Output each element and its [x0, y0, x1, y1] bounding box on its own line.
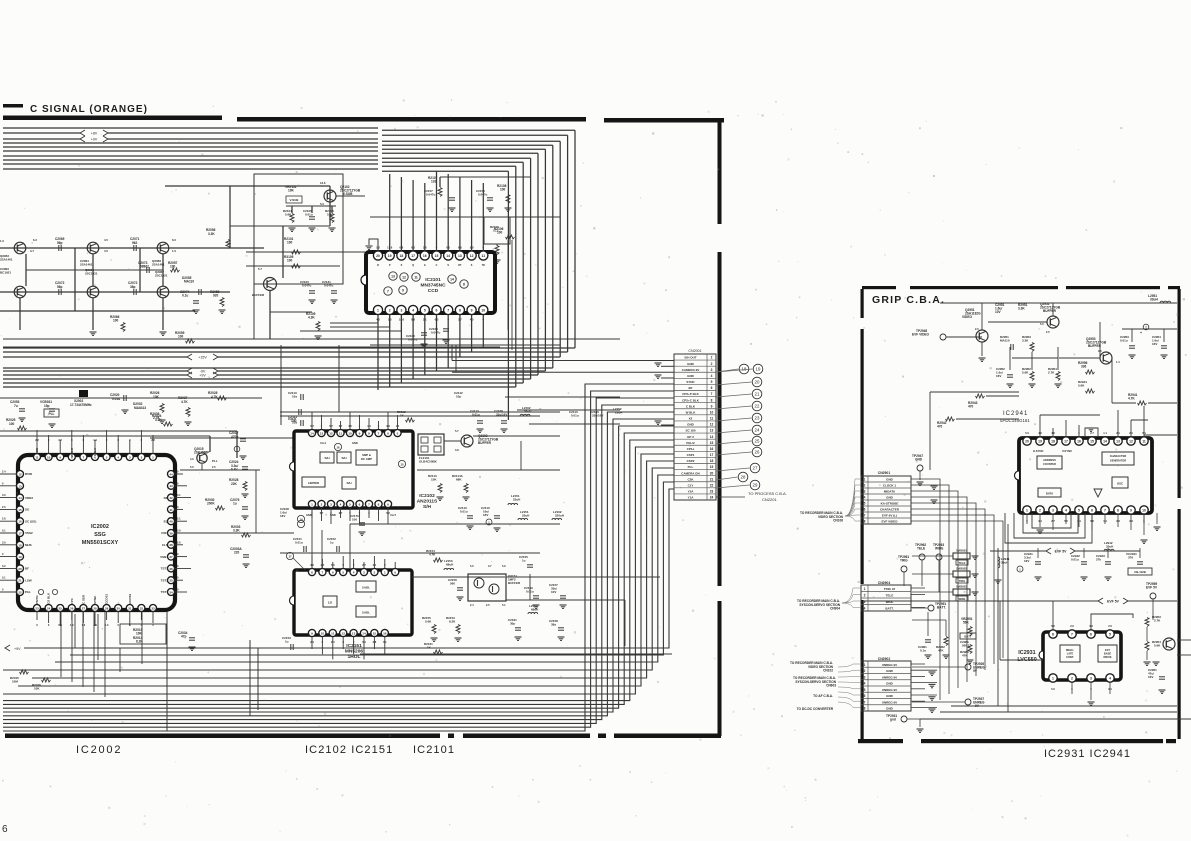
svg-text:15K: 15K	[431, 478, 437, 482]
svg-text:22uH: 22uH	[522, 514, 529, 518]
svg-text:22K: 22K	[231, 482, 238, 486]
svg-text:21: 21	[18, 579, 22, 583]
svg-text:COUNTER: COUNTER	[1043, 462, 1056, 466]
svg-text:7: 7	[711, 392, 713, 396]
svg-text:GRIP C.B.A.: GRIP C.B.A.	[872, 294, 945, 306]
svg-text:WCLK: WCLK	[70, 447, 74, 457]
svg-text:C BLK: C BLK	[686, 404, 696, 408]
svg-text:100: 100	[170, 265, 176, 269]
svg-text:20: 20	[710, 471, 714, 475]
svg-text:4.3K: 4.3K	[308, 316, 315, 320]
svg-text:IC2101: IC2101	[425, 277, 441, 283]
svg-text:20: 20	[376, 254, 380, 258]
svg-text:0.1: 0.1	[2, 529, 6, 533]
svg-text:13: 13	[352, 632, 356, 636]
svg-text:16: 16	[18, 520, 22, 524]
svg-text:PLL: PLL	[212, 459, 218, 463]
svg-text:LIMITER: LIMITER	[308, 481, 319, 485]
svg-text:10a: 10a	[292, 395, 297, 399]
svg-text:GLB4C50BK: GLB4C50BK	[419, 460, 438, 464]
svg-text:56K: 56K	[963, 621, 970, 625]
svg-text:2.6: 2.6	[1070, 624, 1074, 628]
svg-text:7: 7	[864, 514, 866, 518]
svg-text:35: 35	[169, 579, 173, 583]
svg-text:2.4: 2.4	[470, 603, 474, 607]
svg-text:4: 4	[1109, 677, 1111, 681]
svg-text:0.047u: 0.047u	[426, 193, 436, 197]
svg-text:TELE: TELE	[917, 547, 925, 551]
svg-text:11: 11	[331, 632, 335, 636]
svg-text:1.1: 1.1	[1103, 431, 1107, 435]
svg-text:MIDATA: MIDATA	[884, 490, 896, 494]
svg-text:5.7: 5.7	[258, 267, 262, 271]
svg-text:UNREG 9V: UNREG 9V	[882, 675, 897, 679]
svg-text:41: 41	[169, 508, 173, 512]
svg-text:33uH: 33uH	[1001, 561, 1008, 565]
svg-text:V.SYNC: V.SYNC	[1062, 449, 1072, 453]
svg-text:220: 220	[234, 551, 240, 555]
svg-text:24: 24	[710, 496, 714, 500]
svg-text:8: 8	[711, 398, 713, 402]
svg-text:5: 5	[349, 503, 351, 507]
svg-text:33uH: 33uH	[1150, 298, 1158, 302]
svg-text:2.4: 2.4	[2, 470, 6, 474]
svg-text:14: 14	[362, 632, 366, 636]
svg-text:RT: RT	[458, 264, 462, 267]
svg-text:CN2902: CN2902	[878, 657, 891, 661]
svg-text:TO DC-DC CONVERTER: TO DC-DC CONVERTER	[797, 707, 834, 711]
svg-text:3: 3	[711, 368, 713, 372]
svg-text:GND: GND	[886, 669, 894, 673]
svg-text:12: 12	[402, 276, 406, 280]
svg-text:12: 12	[470, 254, 474, 258]
svg-text:CN2904: CN2904	[878, 581, 891, 585]
svg-text:19: 19	[756, 367, 761, 372]
svg-text:AN2011S: AN2011S	[417, 499, 438, 505]
svg-text:8: 8	[864, 520, 866, 524]
svg-text:CAMERA 9V: CAMERA 9V	[682, 368, 700, 372]
svg-text:13: 13	[710, 429, 714, 433]
svg-text:12: 12	[1129, 440, 1133, 444]
svg-text:EXT: EXT	[1105, 648, 1110, 652]
svg-text:16: 16	[1077, 440, 1081, 444]
svg-text:Y1A: Y1A	[688, 496, 695, 500]
svg-text:Q: Q	[412, 264, 414, 267]
svg-text:C: C	[436, 264, 438, 267]
svg-text:CN904: CN904	[830, 607, 840, 611]
svg-text:23: 23	[710, 490, 714, 494]
svg-text:15p: 15p	[44, 404, 50, 408]
svg-text:VSS2: VSS2	[25, 531, 33, 535]
svg-text:22uH: 22uH	[615, 411, 622, 415]
svg-text:68uH: 68uH	[446, 563, 453, 567]
svg-text:5.6: 5.6	[58, 623, 62, 627]
svg-text:28: 28	[741, 475, 746, 480]
svg-text:CP2+P BLK: CP2+P BLK	[682, 392, 699, 396]
svg-text:18: 18	[710, 459, 714, 463]
svg-text:X2: X2	[689, 417, 693, 421]
svg-text:2: 2	[864, 669, 866, 673]
svg-text:3: 3	[363, 571, 365, 575]
svg-text:GND: GND	[886, 694, 894, 698]
svg-text:WIDE: WIDE	[935, 547, 943, 551]
svg-text:BATT.: BATT.	[937, 606, 946, 610]
svg-text:TELE: TELE	[886, 594, 894, 598]
svg-text:+9V: +9V	[91, 137, 98, 141]
svg-text:336: 336	[1081, 365, 1087, 369]
svg-text:2SA1461: 2SA1461	[0, 258, 13, 262]
svg-text:10p: 10p	[456, 395, 461, 399]
svg-text:GP 2: GP 2	[687, 435, 694, 439]
svg-text:5.6K: 5.6K	[1078, 384, 1085, 388]
svg-text:2.7K: 2.7K	[1048, 371, 1055, 375]
svg-text:MN3745NC: MN3745NC	[420, 283, 446, 289]
svg-text:UNREG 9V: UNREG 9V	[882, 688, 897, 692]
svg-text:7: 7	[447, 309, 449, 313]
svg-text:16V: 16V	[280, 514, 285, 518]
svg-text:IC2102 IC2151: IC2102 IC2151	[305, 744, 393, 756]
svg-text:22: 22	[18, 591, 22, 595]
svg-text:IC2002: IC2002	[76, 744, 122, 756]
svg-text:22: 22	[755, 404, 760, 409]
svg-text:19: 19	[1038, 440, 1042, 444]
svg-text:IC2101: IC2101	[413, 744, 455, 756]
svg-text:7: 7	[387, 290, 389, 294]
svg-text:560: 560	[450, 582, 455, 586]
svg-text:3.3K: 3.3K	[1018, 307, 1025, 311]
svg-text:W BLK: W BLK	[686, 410, 697, 414]
svg-text:1HOL: 1HOL	[348, 654, 361, 660]
svg-text:11: 11	[482, 254, 486, 258]
svg-text:PAL: PAL	[25, 590, 31, 594]
svg-text:1HOL: 1HOL	[362, 586, 370, 590]
svg-text:EVF 5V: EVF 5V	[1107, 599, 1119, 603]
svg-text:IC2931: IC2931	[1018, 650, 1035, 656]
svg-text:8: 8	[1052, 633, 1054, 637]
svg-text:0.01u: 0.01u	[305, 213, 313, 217]
svg-text:17: 17	[411, 254, 415, 258]
svg-text:25: 25	[755, 439, 760, 444]
svg-text:962: 962	[132, 241, 138, 245]
svg-text:EVF VIDEO: EVF VIDEO	[881, 520, 898, 524]
svg-text:BUFFER: BUFFER	[1043, 309, 1057, 313]
svg-text:2.0: 2.0	[975, 327, 979, 331]
svg-text:5.7: 5.7	[455, 429, 459, 433]
svg-text:5.6K: 5.6K	[1154, 644, 1161, 648]
svg-text:10V: 10V	[551, 590, 556, 594]
svg-text:CN106: CN106	[833, 519, 843, 523]
svg-text:1u: 1u	[522, 559, 526, 563]
svg-text:12: 12	[18, 473, 22, 477]
svg-text:220uH: 220uH	[555, 514, 564, 518]
svg-text:7: 7	[1104, 509, 1106, 513]
svg-text:470: 470	[968, 405, 974, 409]
svg-text:OSC: OSC	[35, 447, 39, 454]
svg-text:10: 10	[47, 456, 51, 460]
svg-text:2.6: 2.6	[177, 540, 181, 544]
svg-text:39: 39	[169, 531, 173, 535]
svg-text:21: 21	[755, 392, 760, 397]
svg-text:6.3V: 6.3V	[231, 468, 238, 472]
svg-text:0.01u: 0.01u	[1120, 339, 1128, 343]
svg-text:4.7K: 4.7K	[181, 400, 188, 404]
svg-text:7: 7	[1071, 633, 1073, 637]
svg-text:100: 100	[113, 319, 119, 323]
svg-text:2.7K: 2.7K	[153, 416, 160, 420]
svg-text:+8V: +8V	[91, 131, 98, 135]
svg-text:1: 1	[311, 503, 313, 507]
svg-text:11: 11	[1142, 440, 1146, 444]
svg-text:1u: 1u	[233, 502, 237, 506]
svg-text:2.2: 2.2	[151, 438, 155, 442]
svg-text:BUFFER: BUFFER	[508, 581, 521, 585]
svg-text:GND: GND	[687, 423, 695, 427]
svg-text:42: 42	[169, 496, 173, 500]
svg-text:CN2901: CN2901	[878, 471, 891, 475]
svg-text:4: 4	[1065, 509, 1067, 513]
svg-text:S/H OUT: S/H OUT	[684, 356, 696, 360]
svg-text:3.3K: 3.3K	[208, 232, 215, 236]
svg-text:CS BLK: CS BLK	[47, 592, 51, 604]
svg-text:47p: 47p	[181, 635, 187, 639]
svg-text:2SC1921: 2SC1921	[85, 272, 98, 276]
svg-text:3.5: 3.5	[58, 438, 62, 442]
svg-text:3.7: 3.7	[488, 564, 492, 568]
svg-text:WIDE: WIDE	[959, 597, 966, 601]
svg-text:V.SUB: V.SUB	[343, 192, 353, 196]
svg-text:13: 13	[458, 254, 462, 258]
svg-text:5: 5	[1109, 633, 1111, 637]
svg-text:SC 180: SC 180	[685, 429, 695, 433]
svg-text:2.2: 2.2	[35, 438, 39, 442]
svg-text:47K: 47K	[938, 649, 944, 653]
svg-text:17: 17	[288, 555, 292, 559]
svg-text:68862: 68862	[140, 265, 149, 269]
svg-text:BC1921: BC1921	[0, 271, 11, 275]
svg-text:33u/16V: 33u/16V	[592, 414, 603, 418]
svg-text:PLL: PLL	[688, 465, 694, 469]
svg-text:13: 13	[1116, 440, 1120, 444]
svg-text:10K: 10K	[288, 189, 295, 193]
svg-text:MHS: MHS	[25, 543, 32, 547]
svg-text:CAMERA ON: CAMERA ON	[681, 471, 699, 475]
svg-text:3: 3	[1052, 509, 1054, 513]
svg-text:5: 5	[711, 380, 713, 384]
svg-text:0.01u: 0.01u	[460, 510, 468, 514]
svg-text:30p: 30p	[510, 622, 515, 626]
svg-text:5: 5	[397, 432, 399, 436]
svg-text:38: 38	[169, 543, 173, 547]
svg-text:18: 18	[1051, 440, 1055, 444]
svg-text:VDD2: VDD2	[25, 496, 33, 500]
svg-text:CN102: CN102	[823, 669, 833, 673]
svg-text:S/H: S/H	[346, 481, 351, 485]
svg-text:GENERATOR: GENERATOR	[1110, 459, 1126, 463]
svg-text:14: 14	[446, 254, 450, 258]
svg-text:2.5: 2.5	[1046, 330, 1050, 334]
svg-text:5.6K: 5.6K	[1022, 371, 1029, 375]
svg-text:2SA1461: 2SA1461	[152, 263, 165, 267]
svg-text:2: 2	[321, 503, 323, 507]
svg-text:1: 1	[377, 309, 379, 313]
svg-text:30: 30	[117, 607, 121, 611]
svg-text:13: 13	[18, 484, 22, 488]
svg-text:3: 3	[864, 600, 866, 604]
svg-text:2: 2	[389, 309, 391, 313]
svg-text:8.2K: 8.2K	[449, 620, 456, 624]
svg-text:5.0: 5.0	[1040, 322, 1044, 326]
svg-text:2: 2	[1039, 509, 1041, 513]
svg-text:8: 8	[459, 309, 461, 313]
svg-text:TO AF C.B.A.: TO AF C.B.A.	[813, 694, 833, 698]
svg-text:3.0: 3.0	[2, 493, 6, 497]
svg-text:LATE: LATE	[1067, 652, 1074, 656]
svg-text:2.7K: 2.7K	[1154, 619, 1161, 623]
svg-text:gnd: gnd	[890, 718, 896, 722]
svg-text:16V: 16V	[1024, 559, 1029, 563]
svg-text:8: 8	[378, 503, 380, 507]
svg-text:5.6K: 5.6K	[425, 620, 432, 624]
svg-text:DATA: DATA	[1046, 492, 1053, 496]
svg-text:TST3: TST3	[161, 567, 169, 571]
svg-text:4.5: 4.5	[104, 238, 108, 242]
svg-text:TST2: TST2	[161, 578, 169, 582]
svg-text:EVF VIDEO: EVF VIDEO	[912, 333, 930, 337]
svg-text:BATT: BATT	[964, 635, 972, 639]
svg-text:4: 4	[864, 682, 866, 686]
svg-text:0.01u: 0.01u	[112, 397, 120, 401]
svg-text:4: 4	[340, 503, 342, 507]
svg-text:9: 9	[471, 309, 473, 313]
svg-text:27: 27	[82, 607, 86, 611]
svg-text:38p: 38p	[130, 285, 136, 289]
svg-text:CSP1: CSP1	[687, 453, 695, 457]
svg-text:3.7: 3.7	[30, 249, 34, 253]
svg-text:68uH: 68uH	[531, 608, 538, 612]
svg-text:1: 1	[384, 571, 386, 575]
svg-text:56p: 56p	[57, 285, 63, 289]
svg-text:CN2201: CN2201	[762, 497, 777, 502]
svg-text:100: 100	[287, 259, 293, 263]
svg-text:17: 17	[1064, 440, 1068, 444]
svg-text:DRIVE: DRIVE	[1104, 655, 1112, 659]
svg-text:6: 6	[359, 503, 361, 507]
svg-text:5: 5	[342, 571, 344, 575]
svg-text:470p: 470p	[231, 435, 238, 439]
svg-text:7: 7	[322, 571, 324, 575]
svg-text:5.0: 5.0	[177, 529, 181, 533]
svg-text:8: 8	[864, 707, 866, 711]
svg-text:133: 133	[431, 180, 437, 184]
svg-text:1u: 1u	[330, 541, 334, 545]
svg-text:CCDS2: CCDS2	[128, 593, 132, 604]
svg-text:11: 11	[414, 276, 418, 280]
svg-text:7: 7	[864, 700, 866, 704]
svg-text:13: 13	[320, 432, 324, 436]
svg-text:1.0: 1.0	[172, 249, 176, 253]
svg-text:+15V: +15V	[198, 355, 207, 359]
svg-text:PLL: PLL	[48, 412, 54, 416]
svg-text:0.1u: 0.1u	[920, 649, 926, 653]
svg-text:10K: 10K	[34, 687, 40, 691]
svg-text:14: 14	[1103, 440, 1107, 444]
svg-text:Vcc1: Vcc1	[320, 441, 327, 445]
svg-text:17.734475MHz: 17.734475MHz	[70, 403, 92, 407]
svg-text:WIDE: WIDE	[886, 600, 894, 604]
svg-text:2SC1921: 2SC1921	[155, 274, 168, 278]
svg-text:29: 29	[753, 483, 758, 488]
svg-text:1: 1	[864, 478, 866, 482]
svg-text:11: 11	[339, 432, 343, 436]
svg-text:12: 12	[342, 632, 346, 636]
svg-text:56p: 56p	[57, 241, 63, 245]
svg-text:20: 20	[18, 567, 22, 571]
svg-text:2: 2	[1071, 677, 1073, 681]
svg-text:MA110: MA110	[1000, 339, 1010, 343]
svg-text:4.7K: 4.7K	[1128, 397, 1135, 401]
svg-text:14: 14	[450, 278, 454, 282]
svg-text:2.1: 2.1	[177, 517, 181, 521]
svg-text:5: 5	[424, 309, 426, 313]
svg-text:25: 25	[59, 607, 63, 611]
svg-text:6: 6	[436, 309, 438, 313]
svg-text:BUFFER: BUFFER	[478, 441, 492, 445]
svg-text:PAL/2: PAL/2	[686, 441, 695, 445]
svg-text:IC2002: IC2002	[91, 524, 109, 530]
svg-text:16V: 16V	[1152, 342, 1157, 346]
svg-text:CN2001: CN2001	[688, 349, 701, 353]
svg-text:4.9: 4.9	[190, 457, 194, 461]
svg-text:3: 3	[1090, 677, 1092, 681]
svg-text:6: 6	[387, 432, 389, 436]
svg-text:27k: 27k	[1096, 558, 1101, 562]
svg-text:S/H: S/H	[423, 504, 432, 510]
svg-text:C1Y: C1Y	[688, 483, 694, 487]
svg-text:13.6: 13.6	[320, 181, 326, 185]
svg-text:10: 10	[348, 432, 352, 436]
svg-text:V001: V001	[161, 531, 168, 535]
svg-text:7u: 7u	[14, 404, 18, 408]
svg-text:1HOL: 1HOL	[362, 611, 370, 615]
svg-text:100: 100	[500, 188, 506, 192]
svg-text:2: 2	[864, 484, 866, 488]
svg-text:2: 2	[374, 571, 376, 575]
svg-text:15: 15	[710, 441, 714, 445]
svg-text:1u: 1u	[285, 640, 289, 644]
svg-text:TRIG: TRIG	[959, 579, 965, 583]
svg-text:CP1e: CP1e	[687, 447, 695, 451]
svg-text:16V: 16V	[483, 513, 488, 517]
svg-text:GND: GND	[886, 496, 894, 500]
svg-text:CCDS1: CCDS1	[105, 593, 109, 604]
svg-text:1/2: 1/2	[328, 601, 333, 605]
svg-text:EQ: EQ	[164, 519, 169, 523]
svg-text:2.5: 2.5	[2, 505, 6, 509]
svg-text:27: 27	[753, 466, 758, 471]
svg-text:8: 8	[1117, 509, 1119, 513]
svg-text:MA110: MA110	[184, 280, 194, 284]
svg-text:3: 3	[330, 503, 332, 507]
svg-text:5.0: 5.0	[470, 564, 474, 568]
svg-text:2SK1586P: 2SK1586P	[194, 451, 210, 455]
svg-text:4: 4	[353, 571, 355, 575]
svg-text:34: 34	[169, 590, 173, 594]
svg-text:SYNC: SYNC	[686, 380, 695, 384]
svg-text:14: 14	[18, 496, 22, 500]
svg-text:9: 9	[711, 404, 713, 408]
svg-text:GND: GND	[886, 478, 894, 482]
svg-text:100: 100	[178, 335, 184, 339]
